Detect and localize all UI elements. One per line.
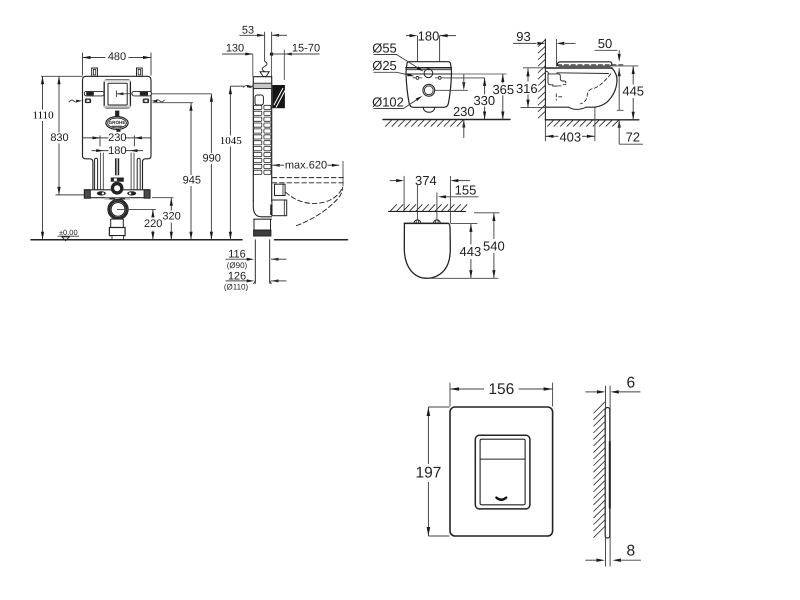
svg-text:443: 443 (460, 244, 482, 259)
svg-text:220: 220 (144, 218, 162, 230)
dim 220 (144, 209, 162, 239)
label diameter 90 (227, 261, 248, 270)
mounting hole right (435, 77, 444, 80)
svg-text:130: 130 (226, 42, 244, 54)
dim 445 (622, 66, 645, 120)
top fixing bolt left (92, 68, 98, 76)
svg-text:540: 540 (483, 238, 505, 253)
rim lower line (557, 72, 609, 75)
svg-text:180: 180 (418, 28, 440, 43)
label diameter 102 (372, 94, 422, 109)
flush plate (450, 407, 553, 536)
outlet connector circle (108, 199, 128, 219)
dim 320 (162, 198, 180, 240)
hinge dome left (414, 220, 421, 223)
dim 8 (585, 543, 641, 562)
frame profile outline (253, 77, 271, 202)
dim 830 (50, 76, 68, 195)
dim 15-70 (272, 42, 320, 80)
bowl seat band (406, 68, 452, 70)
dim 53 (239, 24, 287, 37)
dim 155 (438, 183, 479, 199)
dim 180 (92, 145, 144, 157)
bowl profile outer (595, 68, 617, 107)
dim 116 (226, 249, 287, 261)
svg-text:50: 50 (598, 36, 612, 51)
svg-text:Ø25: Ø25 (372, 58, 397, 73)
fixing clip right (143, 99, 148, 103)
dim 93 (513, 29, 576, 45)
dim 830 reference line (56, 194, 85, 196)
button logo mark (496, 498, 506, 500)
ground level label (58, 228, 80, 241)
bowl inlet channel (546, 71, 566, 86)
svg-text:480: 480 (108, 51, 126, 63)
foot rail bracket (84, 190, 150, 198)
svg-text:180: 180 (108, 145, 126, 157)
dim 443 (459, 224, 482, 278)
svg-text:(Ø110): (Ø110) (224, 283, 249, 292)
svg-text:945: 945 (183, 175, 201, 187)
GROHE logo (106, 117, 128, 132)
dim 945 reference line (153, 102, 194, 104)
wall-hung bowl dashed seat lines (272, 178, 343, 183)
outlet elbow profile (253, 200, 271, 236)
wall break mark left (69, 100, 82, 103)
dim 320 reference line (152, 197, 174, 199)
label diameter 110 (224, 283, 249, 292)
svg-text:±0.00: ±0.00 (59, 228, 78, 237)
flush button (480, 439, 525, 505)
svg-text:Ø55: Ø55 (372, 40, 397, 55)
flush button frame (475, 435, 530, 509)
svg-text:6: 6 (626, 375, 635, 392)
dim 316 (515, 68, 538, 107)
outlet center line (117, 208, 156, 210)
svg-text:15-70: 15-70 (292, 42, 320, 54)
flush elbow ring (111, 182, 124, 195)
dim 374 extension lines (404, 176, 450, 223)
dim 230 reference line (435, 89, 468, 91)
dim 156 extension lines (450, 383, 553, 407)
bowl back outline (406, 62, 452, 108)
dim 403 (545, 129, 595, 144)
dim 230 (83, 132, 151, 144)
frame ladder rungs (254, 105, 271, 174)
fixing clip left (85, 99, 90, 103)
svg-text:max.620: max.620 (285, 159, 327, 171)
dim 1110 (32, 76, 55, 240)
seat bottom reference line (426, 277, 498, 279)
dim 480 extension lines (83, 53, 152, 76)
dim 316 reference line bottom (521, 107, 546, 109)
outlet pipe lower (109, 219, 125, 239)
outlet bracket box upper (275, 184, 286, 195)
svg-text:155: 155 (455, 183, 477, 198)
svg-text:8: 8 (626, 543, 635, 560)
dim 1045 reference and break mark (230, 85, 253, 88)
mounting hole left (413, 77, 422, 80)
dim 443 reference line (450, 223, 477, 225)
bowl inner dashed (556, 74, 611, 104)
bowl back reference line (556, 39, 558, 67)
flush bend pipe (111, 158, 124, 181)
frame outline (83, 76, 152, 190)
svg-text:(Ø90): (Ø90) (227, 261, 248, 270)
svg-text:93: 93 (516, 29, 530, 44)
dim 126 (226, 270, 287, 282)
ground line (31, 239, 348, 241)
outlet pipe below ground (254, 240, 272, 284)
svg-text:445: 445 (622, 84, 644, 99)
svg-text:53: 53 (242, 24, 254, 36)
water inlet elbow (260, 61, 269, 76)
toilet ground line (545, 119, 638, 121)
dim 53 extension lines (265, 32, 272, 61)
svg-text:230: 230 (108, 132, 126, 144)
dim 180 extension lines bowl (418, 36, 440, 62)
bracket slot left (97, 191, 106, 195)
flush hole (424, 69, 433, 78)
plate side hatching (594, 402, 605, 537)
water supply arm left (84, 91, 104, 96)
svg-text:72: 72 (626, 130, 640, 145)
dim 480 (83, 51, 152, 63)
svg-text:374: 374 (415, 173, 437, 188)
dim 6 (585, 375, 640, 394)
top fixing bolt right (137, 68, 143, 76)
flush pipe upper (115, 111, 119, 117)
dim 1045 (219, 86, 242, 240)
dim 540 seat (482, 213, 505, 278)
outlet fitting marks (105, 198, 131, 200)
plate side wall lines (606, 386, 611, 567)
dim 1110 reference line (41, 75, 83, 77)
svg-text:365: 365 (492, 82, 514, 97)
toilet ground hatching (548, 120, 619, 126)
support rod left (95, 158, 98, 189)
dim 540 reference line (474, 212, 500, 214)
label diameter 55 (372, 40, 423, 71)
bowl bottom line (546, 107, 595, 109)
frame profile top band (253, 83, 271, 88)
svg-text:156: 156 (488, 381, 514, 398)
svg-text:830: 830 (50, 132, 68, 144)
seat lid outline (404, 223, 450, 278)
bowl rim line (405, 73, 451, 75)
wall hanger block (272, 85, 285, 108)
dim 374 (390, 173, 470, 188)
inspection shaft profile (255, 95, 263, 105)
label diameter 25 (372, 58, 414, 76)
outlet spigot (423, 84, 435, 96)
dim 365 reference line (452, 73, 507, 75)
supply pipe junction dot (270, 52, 274, 76)
hinge bolt line left (416, 184, 418, 221)
svg-text:1045: 1045 (220, 135, 243, 147)
seat wall hatching (391, 205, 468, 211)
svg-text:230: 230 (453, 104, 475, 119)
dim 990 (203, 94, 221, 240)
guide pipe right (131, 153, 134, 190)
svg-text:320: 320 (162, 211, 180, 223)
dim 156 (450, 381, 553, 398)
seat profile (557, 62, 623, 66)
hinge dome right (433, 220, 440, 223)
wall-hung bowl dashed outline (286, 187, 343, 226)
wall break mark right (151, 100, 164, 103)
dim 197 extension lines (428, 407, 449, 536)
dim 403 extension line (594, 108, 596, 142)
drain arc (423, 107, 435, 112)
bowl ground line (383, 119, 510, 121)
outlet bracket box lower (270, 200, 286, 216)
rim top line (523, 66, 638, 68)
dim 230 extension lines (100, 135, 134, 146)
guide pipe left (100, 153, 103, 190)
svg-text:403: 403 (559, 129, 581, 144)
seat wall line (389, 210, 466, 212)
inspection box (104, 80, 131, 108)
dim 990 reference line (116, 93, 211, 95)
dim 180 bowl (406, 28, 456, 43)
dim 230 bowl (453, 74, 475, 138)
svg-text:Ø102: Ø102 (372, 94, 404, 109)
hinge bolt line right (436, 193, 438, 221)
svg-text:197: 197 (415, 465, 441, 482)
svg-text:990: 990 (203, 153, 221, 165)
support rod right (137, 158, 140, 189)
water supply arm right (132, 91, 151, 96)
dim 130 (222, 42, 253, 76)
dim 72 (618, 120, 643, 145)
dim 197 (415, 407, 442, 536)
dim 330 reference line (444, 77, 485, 79)
bowl ground hatching (386, 120, 464, 126)
wall hatching (538, 40, 545, 118)
flush pipe center mark (116, 91, 123, 97)
dim 50 (595, 36, 624, 110)
svg-text:316: 316 (516, 81, 538, 96)
plate side profile (605, 408, 610, 539)
dim max620 (272, 159, 343, 186)
dim 330 bowl (473, 78, 495, 120)
svg-text:1110: 1110 (33, 109, 55, 121)
wall line (544, 39, 546, 141)
svg-text:GROHE: GROHE (109, 120, 126, 125)
dim 365 bowl (492, 74, 514, 120)
dim 945 (183, 103, 201, 240)
bracket slot right (127, 191, 136, 195)
